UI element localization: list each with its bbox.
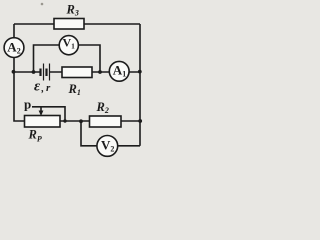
svg-text:,: , [41,84,45,95]
svg-text:p: p [24,97,31,112]
svg-text:r: r [46,82,51,94]
svg-text:ε: ε [34,79,41,95]
